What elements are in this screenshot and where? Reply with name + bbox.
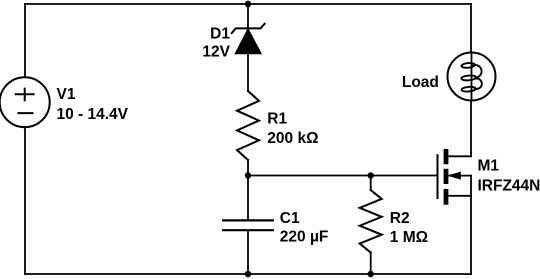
svg-text:R1: R1 xyxy=(267,111,287,128)
resistor R2 zigzag xyxy=(360,190,382,253)
mosfet M1 source channel bar xyxy=(444,189,449,205)
svg-text:R2: R2 xyxy=(390,210,410,227)
wire left rail lower xyxy=(24,127,26,274)
wire top rail xyxy=(25,3,471,5)
wire C1 to bottom rail xyxy=(247,230,249,274)
svg-text:D1: D1 xyxy=(210,25,230,42)
wire R1 to gate node xyxy=(247,160,249,176)
wire lamp to mosfet drain xyxy=(470,100,472,156)
wire left rail upper xyxy=(24,4,26,77)
svg-text:M1: M1 xyxy=(478,158,500,175)
node C1 bottom junction dot xyxy=(245,271,251,277)
mosfet M1 body arrow xyxy=(449,172,460,179)
lamp Load circle xyxy=(448,53,496,101)
svg-text:Load: Load xyxy=(402,74,439,91)
wire bottom rail xyxy=(25,273,471,275)
capacitor C1 plates xyxy=(222,220,274,230)
wire gate node to C1 xyxy=(247,176,249,221)
mosfet M1 drain lead xyxy=(448,155,471,157)
svg-text:10 - 14.4V: 10 - 14.4V xyxy=(57,106,129,123)
svg-text:200 kΩ: 200 kΩ xyxy=(267,130,318,147)
node R2 bottom junction dot xyxy=(368,271,374,277)
svg-text:12V: 12V xyxy=(202,44,230,61)
zener diode D1 triangle xyxy=(236,29,261,53)
mosfet M1 body lead xyxy=(448,175,471,177)
mosfet M1 body channel bar xyxy=(444,169,449,184)
node gate junction dot xyxy=(245,172,251,178)
wire top node to D1 xyxy=(247,4,249,28)
V1 minus sign xyxy=(18,112,32,114)
mosfet M1 gate bar xyxy=(437,154,439,199)
svg-text:IRFZ44N: IRFZ44N xyxy=(478,177,540,194)
svg-text:1 MΩ: 1 MΩ xyxy=(390,229,428,246)
lamp filament coil xyxy=(461,63,482,93)
wire gate lead xyxy=(248,175,438,177)
node top junction dot xyxy=(245,1,251,7)
wire D1 to R1 xyxy=(247,54,249,92)
node R2 top junction dot xyxy=(368,172,374,178)
wire right rail upper (top rail to lamp) xyxy=(470,4,472,53)
mosfet M1 drain channel bar xyxy=(444,149,449,164)
wire R2 top xyxy=(370,176,372,191)
svg-text:220 µF: 220 µF xyxy=(280,228,329,245)
resistor R1 zigzag xyxy=(237,91,259,160)
zener diode D1 bar with hooks xyxy=(232,24,265,33)
V1 plus sign xyxy=(16,89,34,101)
voltage source V1 circle xyxy=(0,77,50,127)
wire R2 bottom xyxy=(370,253,372,275)
svg-text:C1: C1 xyxy=(280,210,300,227)
lamp vertical wire through xyxy=(471,53,473,101)
wire mosfet source/body to bottom rail xyxy=(470,176,472,274)
svg-text:V1: V1 xyxy=(57,86,76,103)
mosfet M1 source lead xyxy=(448,195,471,197)
